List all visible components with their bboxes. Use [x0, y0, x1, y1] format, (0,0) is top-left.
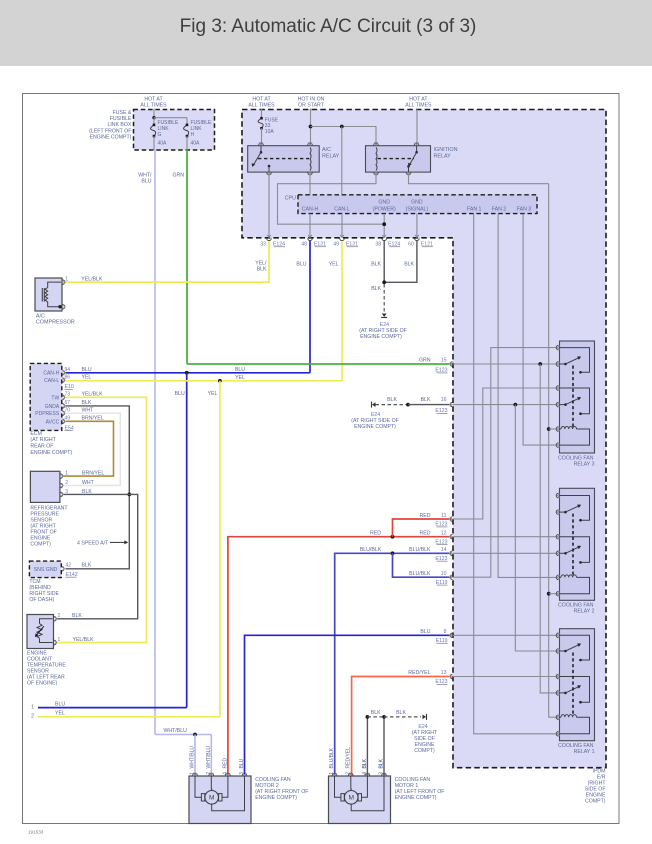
wire BLK dashed to ground E24 lower — [367, 716, 384, 718]
junction WHT/BLU split — [193, 733, 197, 737]
title header bar — [0, 0, 652, 66]
svg-text:40A: 40A — [191, 140, 201, 146]
wire BLK dashed from E24 to junction — [376, 404, 409, 406]
A/C compressor pin 1 — [63, 280, 65, 285]
wire BLK pressure sensor ground to coolant sensor — [57, 494, 138, 618]
relay 2 pin 6 — [556, 591, 558, 596]
wire WHT/BLU from fusible link G down left side — [153, 136, 155, 150]
svg-text:OF DASH): OF DASH) — [29, 597, 54, 603]
relay 2 pin 1 — [556, 493, 558, 498]
wire CPU GND SIGNAL to pin 60 — [416, 214, 418, 238]
relay 2 switch 2 contact wire — [560, 537, 590, 563]
wire pin 12 to relay 2 pin 3 — [453, 536, 556, 538]
refrigerant pressure sensor pin 2 — [60, 483, 62, 488]
motor 2 internal wiring — [195, 776, 201, 797]
A/C relay fixed contact — [268, 165, 271, 168]
IPDM connector pin 49 E121 — [340, 238, 345, 240]
svg-text:2: 2 — [65, 480, 68, 486]
wire RED motor 2 to pins 11 and 12 — [228, 537, 450, 776]
svg-text:M: M — [348, 795, 354, 802]
svg-text:YEL/BLK: YEL/BLK — [73, 637, 95, 643]
ECM pin 70 PDPRESS — [62, 411, 64, 416]
svg-text:RELAY: RELAY — [322, 153, 340, 159]
relay 2 pin 5 — [556, 575, 558, 580]
svg-text:BLK: BLK — [421, 397, 431, 403]
svg-text:LINK BOX: LINK BOX — [107, 122, 131, 128]
relay 1 mechanical link — [572, 653, 574, 716]
motor 1 pin 1 BLU/BLK — [332, 773, 337, 775]
relay 1 coil — [560, 716, 562, 718]
relay 3 switch 2 contact wire — [560, 388, 590, 414]
relay 3 pin 1 — [556, 345, 558, 350]
svg-text:14: 14 — [441, 547, 447, 553]
svg-text:13: 13 — [441, 670, 447, 676]
fuse 33 10A — [258, 118, 263, 128]
svg-text:WHT/BLU: WHT/BLU — [190, 746, 196, 769]
junction BLK sensor ground — [127, 493, 131, 497]
svg-text:42: 42 — [66, 563, 72, 569]
svg-text:YEL: YEL — [55, 711, 65, 717]
svg-text:RELAY 2: RELAY 2 — [574, 609, 595, 615]
ground E24 upper — [372, 402, 376, 407]
fusible link H — [184, 125, 189, 136]
svg-text:3: 3 — [239, 772, 245, 775]
ECM pin 49 AVCC — [62, 419, 64, 424]
svg-text:YEL: YEL — [235, 375, 245, 381]
svg-text:ECM: ECM — [30, 431, 42, 437]
wire branch to ignition relay coil — [311, 127, 377, 145]
svg-text:YEL: YEL — [82, 374, 92, 380]
svg-text:FAN 2: FAN 2 — [492, 207, 507, 213]
pin 14 E123 — [450, 551, 452, 556]
svg-text:1: 1 — [65, 276, 68, 282]
wire YEL CAN branch down — [219, 381, 221, 717]
A/C relay bottom pin coil — [308, 173, 313, 175]
svg-text:GNDA: GNDA — [45, 404, 60, 410]
wire BLU motor 2 pin 3 to pin 8 — [245, 635, 450, 776]
svg-text:3: 3 — [65, 489, 68, 495]
relay 1 switch 1 contact wire — [560, 635, 590, 660]
svg-text:GND: GND — [378, 199, 390, 205]
relay 3 pin 4 — [556, 402, 558, 407]
svg-text:191533: 191533 — [28, 830, 44, 835]
relay 1 switch 2 contact wire — [560, 677, 590, 703]
svg-text:BLK: BLK — [82, 563, 92, 569]
svg-text:BLU: BLU — [175, 391, 185, 397]
svg-text:ENGINE COMPT): ENGINE COMPT) — [360, 334, 402, 340]
wire CPU CAN-H to pin 48 — [309, 214, 311, 238]
wire pin 16 to relay 3 switch 2 — [453, 404, 556, 406]
svg-text:COMPT): COMPT) — [30, 542, 51, 548]
wire BLK pin 60 down and left — [384, 241, 417, 282]
ECM pin 67 GNDA — [62, 404, 64, 409]
svg-text:IGNITION: IGNITION — [434, 147, 458, 153]
svg-text:RELAY: RELAY — [434, 153, 452, 159]
wire pin 10 to relay 3 pin 1 — [453, 348, 556, 578]
motor 2 pin 1 WHT/BLU — [193, 773, 198, 775]
IPDM connector pin 60 E121 — [415, 238, 420, 240]
ignition relay coil — [376, 148, 377, 171]
junction CPU supply branch — [340, 125, 344, 129]
svg-text:COMPT): COMPT) — [585, 799, 606, 805]
relay 2 switch 2 arm — [560, 552, 566, 554]
svg-text:(POWER): (POWER) — [373, 207, 396, 213]
svg-text:16: 16 — [441, 397, 447, 403]
relay 1 pin 6 — [556, 732, 558, 737]
coolant sensor thermistor — [40, 619, 53, 624]
svg-text:BLU/BLK: BLU/BLK — [409, 547, 431, 553]
wire FAN1 from CPU to relay 1 coil — [474, 214, 556, 734]
svg-text:38: 38 — [375, 241, 381, 247]
relay 3 switch 1 contact wire — [560, 348, 590, 373]
svg-text:2: 2 — [206, 772, 212, 775]
svg-text:RED: RED — [223, 758, 229, 769]
relay 3 pin 2 — [556, 362, 558, 367]
ignition relay top pin coil — [374, 143, 379, 145]
svg-text:(SIGNAL): (SIGNAL) — [406, 207, 429, 213]
relay 2 coil — [560, 576, 562, 578]
svg-text:(LEFT FRONT OF: (LEFT FRONT OF — [89, 128, 131, 134]
motor 2 armature — [205, 791, 219, 805]
svg-text:8: 8 — [444, 629, 447, 635]
svg-text:33: 33 — [260, 241, 266, 247]
A/C relay switch arm — [260, 146, 262, 153]
svg-text:A/C: A/C — [36, 314, 45, 320]
cooling fan motor 1 box — [329, 776, 391, 824]
svg-text:RELAY 1: RELAY 1 — [574, 749, 595, 755]
wire A/C relay output to pin 33 — [268, 172, 270, 238]
svg-text:CAN-L: CAN-L — [44, 378, 59, 384]
ECM box — [30, 363, 62, 430]
wire BLK dashed to ground E24 — [383, 284, 385, 312]
relay 2 switch 1 arm — [560, 511, 566, 513]
svg-text:RED: RED — [370, 530, 381, 536]
junction BLU CAN branch — [185, 371, 189, 375]
wire CPU GND POWER to pin 38 — [383, 214, 385, 238]
engine coolant temperature sensor box — [27, 615, 54, 649]
motor 1 armature — [344, 791, 358, 805]
svg-text:A/C: A/C — [322, 147, 331, 153]
relay 3 pin 6 — [556, 443, 558, 448]
svg-text:RED: RED — [420, 530, 431, 536]
svg-text:YEL: YEL — [329, 261, 339, 267]
wire ignition relay switched output to fan relay feed — [409, 172, 549, 184]
relay 1 switch 2 arm — [560, 692, 566, 694]
junction RED branch — [391, 535, 395, 539]
wire BLK motor 1 pin 3 to ground — [383, 717, 385, 776]
IPDM connector pin 33 E124 — [267, 238, 272, 240]
A/C relay coil — [310, 148, 311, 171]
wire FAN2 from CPU to relay 2 coil — [498, 214, 556, 578]
svg-text:RED: RED — [420, 513, 431, 519]
svg-text:H: H — [191, 132, 195, 138]
ignition relay mechanical link — [378, 158, 415, 160]
relay 3 pin 3 — [556, 386, 558, 391]
svg-text:49: 49 — [333, 241, 339, 247]
IPDM connector pin 38 E124 — [382, 238, 387, 240]
ignition relay switch arm — [416, 146, 418, 153]
relay 3 coil — [560, 428, 562, 430]
A/C relay top pin switch — [259, 143, 264, 145]
svg-text:1: 1 — [58, 637, 61, 643]
pin 8 E119 — [450, 633, 452, 638]
svg-text:REAR OF: REAR OF — [30, 444, 53, 450]
wire WHT/BLU to motor 2 pin 2 — [210, 735, 212, 777]
svg-text:(AT RIGHT: (AT RIGHT — [30, 437, 56, 443]
cooling fan relay 1 box — [560, 629, 595, 741]
wire pin 13 to relay 1 pin 3 — [453, 676, 556, 678]
motor 2 pin 2 WHT/BLU — [209, 773, 214, 775]
junction feed relay 3 coil — [547, 427, 551, 431]
fuse and fusible link box — [134, 110, 215, 151]
svg-text:BLU: BLU — [235, 367, 245, 373]
svg-text:ENGINE COMPT): ENGINE COMPT) — [30, 450, 72, 456]
svg-text:BLU/BLK: BLU/BLK — [409, 571, 431, 577]
wire ignition feed to relay coils — [549, 184, 556, 718]
wire ignition relay coil low to ground route — [278, 172, 385, 224]
svg-text:OR START: OR START — [298, 103, 325, 109]
pin 12 E123 — [450, 534, 452, 539]
relay 3 mechanical link — [572, 366, 574, 428]
wire YEL/BLK pin 33 to A/C compressor — [63, 241, 270, 282]
svg-text:CAN-H: CAN-H — [302, 207, 319, 213]
svg-text:BRN/YEL: BRN/YEL — [82, 471, 104, 477]
svg-text:ALL TIMES: ALL TIMES — [405, 103, 432, 109]
svg-text:ENGINE COMPT): ENGINE COMPT) — [395, 795, 437, 801]
svg-text:CAN-H: CAN-H — [43, 371, 59, 377]
wire YEL/BLK TW to coolant temp sensor — [57, 397, 147, 642]
svg-text:ALL TIMES: ALL TIMES — [248, 103, 275, 109]
svg-text:BLU: BLU — [420, 629, 430, 635]
wire BLK to pin 16 — [408, 404, 450, 406]
A/C compressor clutch coil — [48, 282, 61, 287]
ignition relay fixed contact — [407, 165, 410, 168]
wire branch down to CPU — [341, 127, 343, 195]
wire YEL pin 49 down to CAN-L line — [341, 241, 343, 381]
wire branch to relay 1 pin 4 — [540, 364, 556, 693]
svg-text:ENGINE COMPT): ENGINE COMPT) — [90, 135, 132, 141]
svg-text:G: G — [158, 132, 162, 138]
relay 1 pin 5 — [556, 715, 558, 720]
ECM pin 94 CAN-H — [62, 370, 64, 375]
svg-text:COMPT): COMPT) — [414, 748, 435, 754]
svg-text:CAN-L: CAN-L — [334, 207, 350, 213]
wire GRN from fusible link H down — [186, 136, 188, 150]
svg-text:ALL TIMES: ALL TIMES — [140, 103, 167, 109]
motor 1 pin 3 BLK — [382, 773, 387, 775]
motor 1 pin 4 BLK — [365, 773, 370, 775]
junction feed relay 2 coil — [547, 592, 551, 596]
ignition relay bottom pin switch output — [406, 173, 411, 175]
svg-text:4: 4 — [223, 772, 229, 775]
pin 15 E123 — [450, 362, 452, 367]
svg-text:COMPRESSOR: COMPRESSOR — [36, 320, 75, 326]
junction HOT IN ON branch — [309, 125, 313, 129]
svg-text:BLK: BLK — [371, 286, 381, 292]
relay 2 pin 3 — [556, 534, 558, 539]
svg-text:BLK: BLK — [396, 710, 406, 716]
junction YEL CAN branch — [218, 379, 222, 383]
svg-text:Fig 3: Automatic A/C Circuit (: Fig 3: Automatic A/C Circuit (3 of 3) — [180, 16, 477, 37]
fusible link G — [153, 118, 155, 125]
svg-text:GRN: GRN — [172, 173, 184, 179]
wire WHT/BLU to cooling fan motor 2 — [155, 734, 211, 736]
svg-text:BLK: BLK — [371, 261, 381, 267]
svg-text:BLU: BLU — [55, 701, 65, 707]
A/C relay mechanical link — [258, 158, 309, 160]
svg-text:BLU: BLU — [141, 179, 151, 185]
wire BLK motor 1 pin 4 to ground — [366, 717, 368, 776]
svg-text:WHT: WHT — [82, 480, 95, 486]
svg-text:WHT/BLU: WHT/BLU — [164, 728, 188, 734]
ignition relay top pin switch — [414, 143, 419, 145]
wire pin 15 to relay 3 switch — [453, 363, 556, 365]
relay 1 pin 3 — [556, 674, 558, 679]
A/C relay top pin coil — [308, 143, 313, 145]
junction GRN branch to relay 1 — [538, 362, 542, 366]
motor 2 pin 4 RED — [226, 773, 231, 775]
wire BRN/YEL AVCC to pressure sensor — [63, 421, 114, 476]
ECM pin 86 CAN-L — [62, 378, 64, 383]
svg-text:10A: 10A — [265, 129, 275, 135]
TCM box — [29, 561, 61, 578]
refrigerant pressure sensor box — [30, 471, 60, 502]
svg-text:RED/YEL: RED/YEL — [408, 670, 430, 676]
wire HOT IN ON to A/C relay coil — [310, 109, 312, 145]
coolant sensor pin 2 — [54, 617, 56, 622]
wire BLK pin 38 down — [383, 241, 385, 282]
relay 3 switch 2 arm — [560, 404, 566, 406]
wire RED/YEL motor 1 to pin 13 — [352, 677, 450, 777]
relay 3 switch 1 arm — [560, 363, 566, 365]
svg-text:YEL/: YEL/ — [255, 261, 267, 267]
svg-text:BLK: BLK — [404, 261, 414, 267]
svg-text:AVCC: AVCC — [46, 419, 60, 425]
coolant sensor pin 1 — [54, 640, 56, 645]
svg-text:FUSE &: FUSE & — [113, 110, 132, 116]
svg-text:BLK: BLK — [362, 758, 368, 768]
ground E24 lower — [423, 715, 427, 720]
svg-text:2: 2 — [346, 772, 352, 775]
relay 1 pin 1 — [556, 633, 558, 638]
wire A/C relay coil low to CPU — [309, 172, 311, 195]
A/C compressor case ground pin — [63, 304, 65, 309]
svg-text:15: 15 — [441, 358, 447, 364]
pin 13 E123 — [450, 674, 452, 679]
svg-text:GRN: GRN — [419, 358, 431, 364]
ignition relay box — [366, 146, 431, 172]
motor 2 pin 3 BLU — [242, 773, 247, 775]
diagram outer frame — [23, 94, 620, 824]
wire fuse 33 to A/C relay switch — [261, 128, 263, 144]
svg-text:86: 86 — [65, 374, 71, 380]
relay 2 pin 2 — [556, 510, 558, 515]
relay 1 pin 4 — [556, 691, 558, 696]
junction BLU/BLK branch — [391, 551, 395, 555]
svg-text:40A: 40A — [158, 140, 168, 146]
svg-text:BLU: BLU — [239, 758, 245, 768]
svg-text:ENGINE COMPT): ENGINE COMPT) — [255, 795, 297, 801]
junction BLK branch to relay 1 — [513, 403, 517, 407]
svg-text:BLU/BLK: BLU/BLK — [329, 747, 335, 768]
svg-text:YEL: YEL — [208, 391, 218, 397]
svg-text:4 SPEED A/T: 4 SPEED A/T — [77, 540, 109, 546]
svg-text:BLK: BLK — [82, 489, 92, 495]
relay 1 switch 1 arm — [560, 650, 566, 652]
A/C compressor — [35, 278, 62, 311]
A/C relay box — [248, 146, 320, 172]
svg-text:60: 60 — [408, 241, 414, 247]
pin 10 E119 — [450, 575, 452, 580]
junction ignition coil ground with GND POWER — [382, 222, 386, 226]
IPDM connector pin 48 E121 — [308, 238, 313, 240]
pin 16 E123 — [450, 402, 452, 407]
wire GRN to pin 15 — [187, 363, 450, 365]
junction BLK motor grounds — [366, 715, 370, 719]
svg-text:RELAY 3: RELAY 3 — [574, 461, 595, 467]
svg-text:PDPRESS: PDPRESS — [35, 411, 60, 417]
svg-text:1: 1 — [31, 704, 34, 710]
ECM pin 73 TW — [62, 395, 64, 400]
svg-text:GND: GND — [411, 199, 423, 205]
svg-text:1: 1 — [190, 772, 196, 775]
pin 11 E123 — [450, 517, 452, 522]
wire WHT PDPRESS to pressure sensor — [63, 413, 121, 485]
wire WHT/BLU to motor 2 pin 1 — [194, 735, 196, 777]
cooling fan relay 2 box — [560, 488, 595, 600]
svg-text:RED/YEL: RED/YEL — [346, 747, 352, 769]
svg-text:2: 2 — [58, 613, 61, 619]
wire BLU pin 48 down to CAN-H line — [309, 241, 311, 373]
wire FAN3 from CPU to relay 3 coil — [523, 214, 556, 446]
wire BLU CAN branch down — [186, 373, 188, 708]
motor 2 brushes — [201, 794, 204, 801]
svg-text:12: 12 — [441, 530, 447, 536]
wire BLU CAN-H from ECM to pin 48 — [66, 372, 311, 374]
ground E24 mid — [382, 314, 387, 318]
svg-text:1: 1 — [65, 471, 68, 477]
svg-text:2: 2 — [31, 714, 34, 720]
wire BLU/BLK motor 1 to pin 14 — [335, 553, 450, 776]
svg-text:BLK: BLK — [379, 758, 385, 768]
feed wire into fusible links — [153, 109, 155, 118]
wire RED branch to pin 11 — [393, 519, 450, 537]
svg-text:TW: TW — [51, 395, 59, 401]
wire branch to relay 1 pin 2 — [515, 405, 556, 651]
wire pin 8 to relay 1 pin 1 — [453, 634, 556, 636]
svg-text:BLK: BLK — [72, 613, 82, 619]
wire HOT AT ALL TIMES to ignition relay switch — [416, 109, 418, 145]
refrigerant pressure sensor pin 3 — [60, 492, 62, 497]
junction BLK grounds — [382, 280, 386, 284]
svg-text:FAN 3: FAN 3 — [517, 207, 532, 213]
svg-text:YEL/BLK: YEL/BLK — [81, 276, 103, 282]
wire BLU/BLK branch to pin 10 — [393, 553, 450, 577]
relay 3 pin 5 — [556, 427, 558, 432]
svg-text:BLU: BLU — [296, 261, 306, 267]
svg-text:WHT/BLU: WHT/BLU — [206, 746, 212, 769]
relay 1 pin 2 — [556, 649, 558, 654]
svg-text:CPU: CPU — [285, 195, 296, 201]
svg-text:BLU/BLK: BLU/BLK — [360, 547, 382, 553]
svg-text:1: 1 — [329, 772, 335, 775]
wire YEL CAN-L from ECM to pin 49 — [66, 380, 343, 382]
wire pin 14 to relay 2 pin 4 — [453, 552, 556, 554]
svg-text:10: 10 — [441, 571, 447, 577]
relay 2 pin 4 — [556, 551, 558, 556]
wire from HOT AT ALL TIMES to fuse 33 — [261, 109, 263, 119]
svg-text:ENGINE COMPT): ENGINE COMPT) — [354, 424, 396, 430]
